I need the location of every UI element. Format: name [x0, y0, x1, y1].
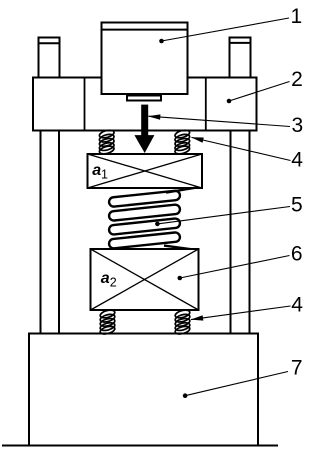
crossbeam left divider [84, 78, 86, 131]
force arrow 3 [134, 105, 154, 153]
leader line 4 bottom [190, 306, 290, 322]
svg-text:5: 5 [291, 194, 303, 217]
svg-text:3: 3 [292, 114, 304, 137]
svg-text:7: 7 [291, 356, 303, 379]
leader line 5 [155, 207, 290, 227]
right column [231, 77, 250, 334]
svg-text:1: 1 [291, 5, 303, 28]
right bolt top [230, 38, 251, 78]
leader line 7 [183, 372, 288, 399]
svg-text:a: a [92, 162, 101, 179]
press plate under ram [127, 96, 161, 101]
specimen box a2 [91, 249, 199, 310]
bottom left spring 4 [99, 309, 115, 336]
ground line [2, 445, 278, 447]
leader line 4 top [190, 135, 290, 161]
leader line 6 [178, 256, 290, 281]
svg-text:a: a [101, 270, 110, 287]
svg-text:4: 4 [291, 148, 303, 171]
bottom right spring 4 [174, 309, 190, 336]
base block 7 [29, 334, 258, 446]
svg-text:4: 4 [291, 294, 303, 317]
svg-text:6: 6 [291, 243, 303, 266]
leader line 2 [227, 82, 290, 104]
left column [41, 77, 60, 334]
top left spring 4 [99, 129, 115, 155]
large coil spring 5 [109, 188, 197, 250]
top right spring 4 [174, 129, 190, 155]
leader line 1 [159, 18, 289, 43]
svg-text:2: 2 [291, 68, 303, 91]
specimen box a1 [88, 154, 203, 188]
svg-text:1: 1 [101, 167, 108, 181]
leader line 3 [148, 114, 290, 127]
crossbeam 2 [33, 78, 257, 131]
crossbeam right divider [205, 78, 207, 131]
svg-text:2: 2 [110, 276, 117, 290]
left bolt top [39, 38, 60, 78]
press ram block 1 [102, 23, 188, 95]
